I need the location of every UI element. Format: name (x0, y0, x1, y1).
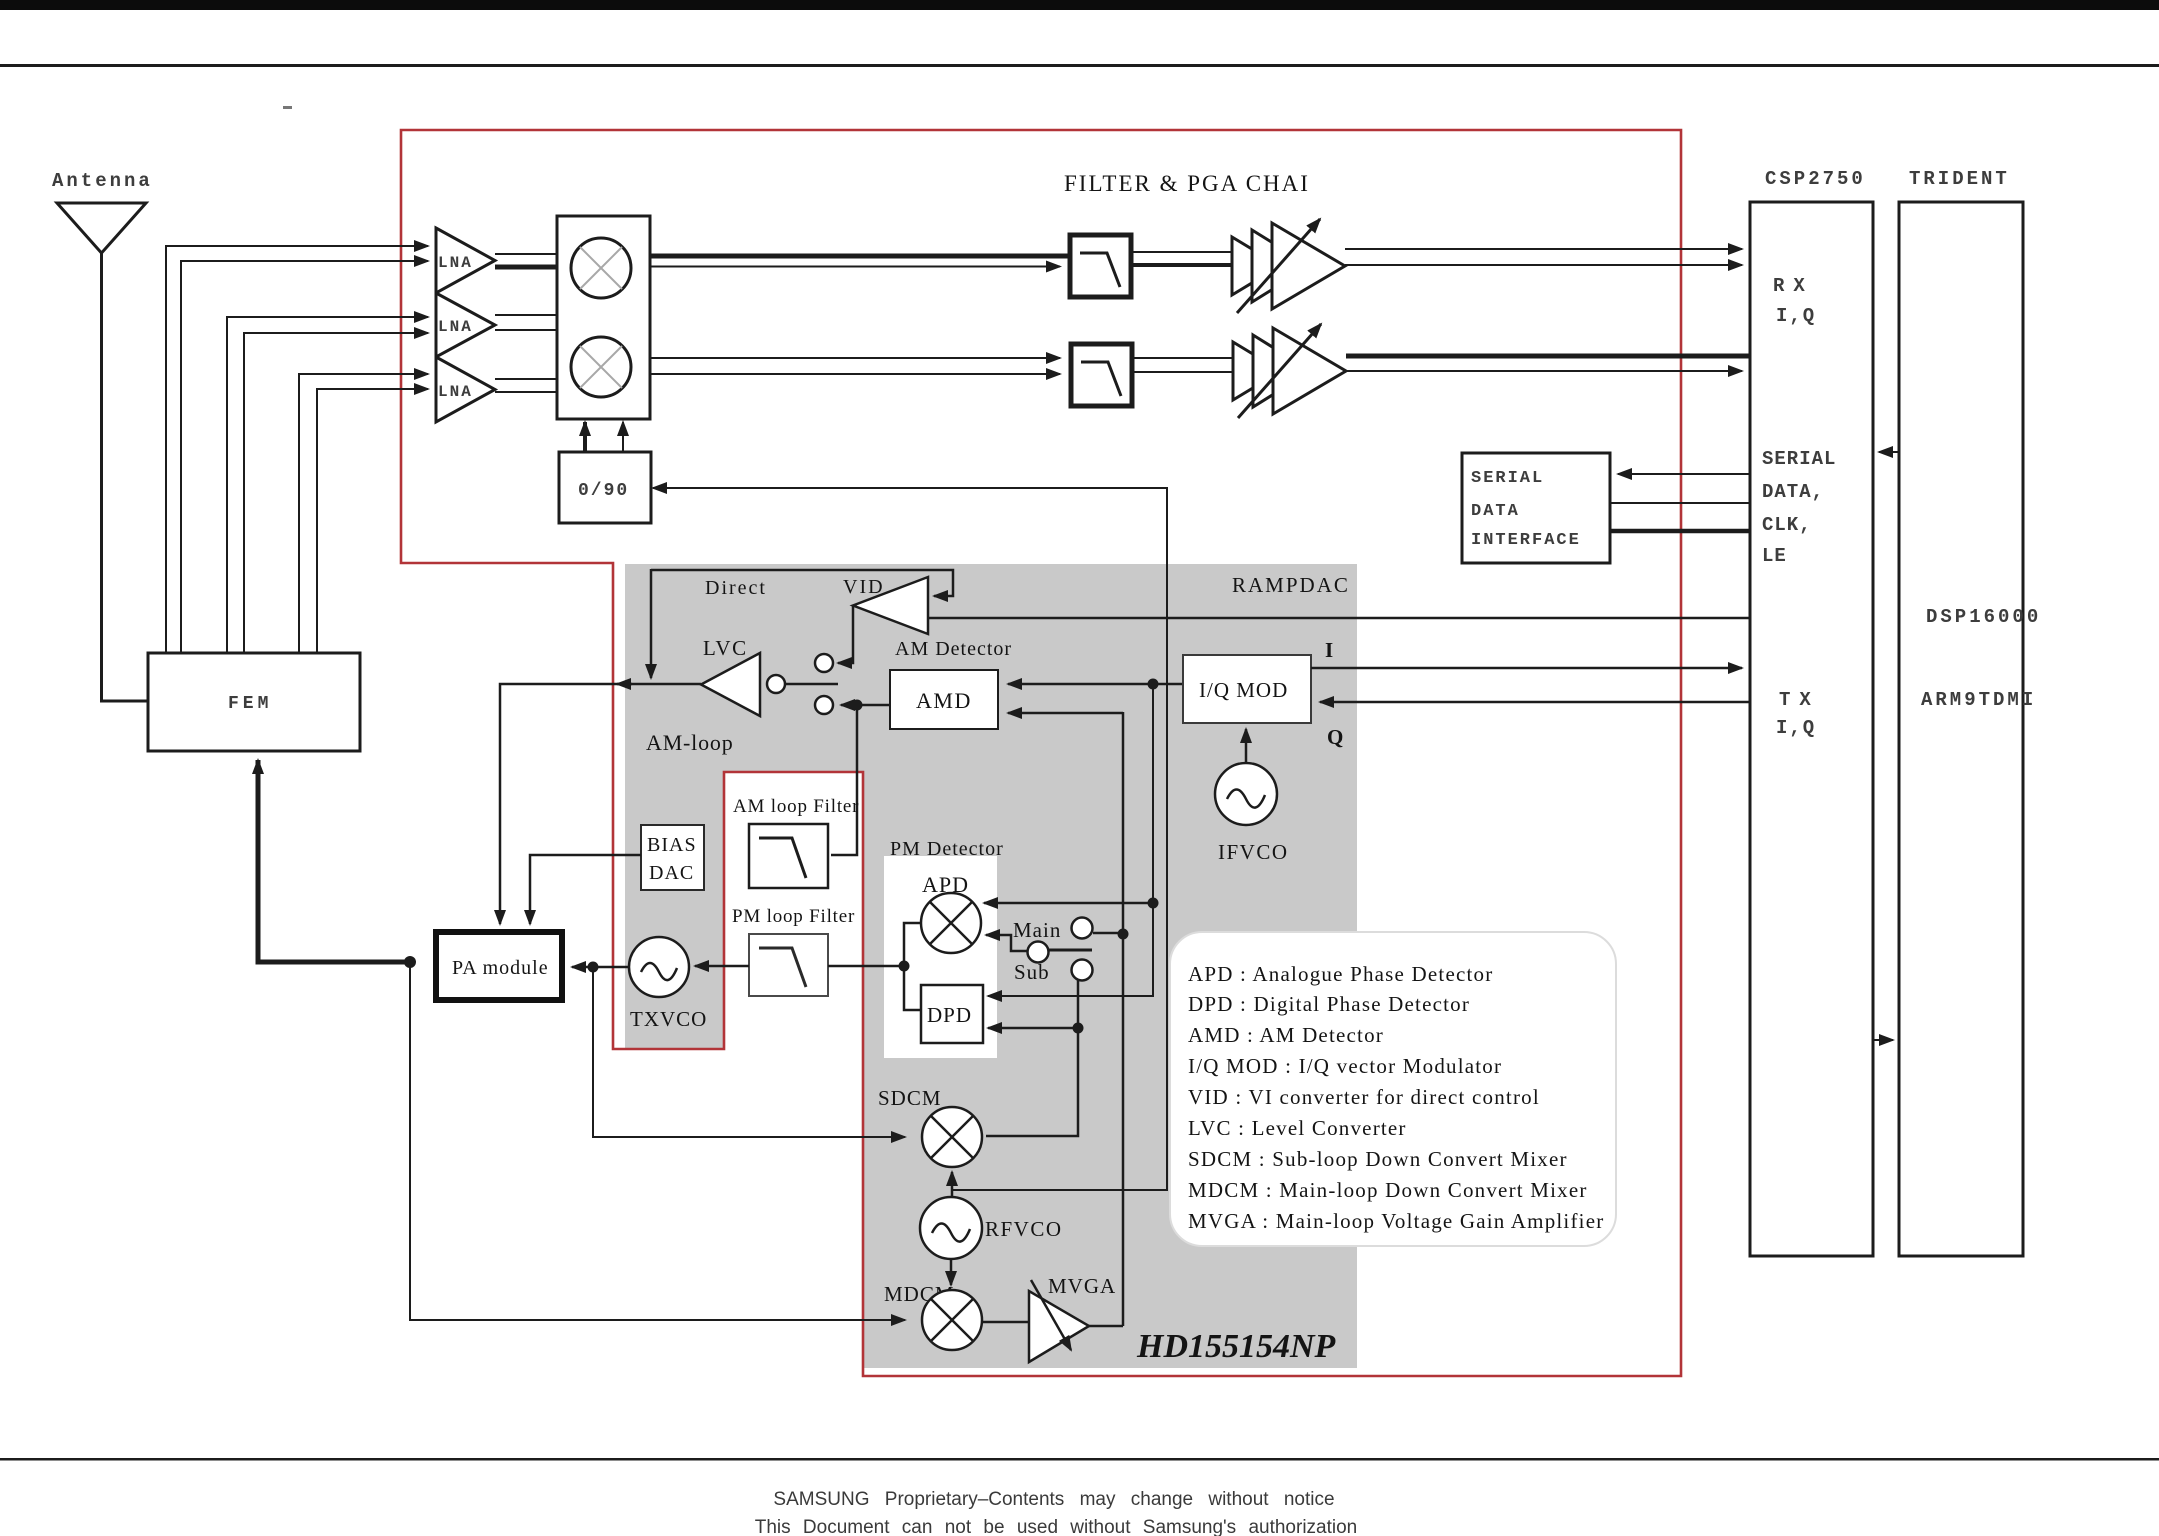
LO wires mixer to 0/90 (583, 422, 587, 452)
wire FEM to LNA2 in2 (244, 333, 428, 653)
switch lower contact (815, 696, 833, 714)
svg-text:AM loop Filter: AM loop Filter (733, 796, 859, 817)
node on AMD output (852, 700, 863, 711)
svg-text:I,Q: I,Q (1776, 305, 1816, 327)
legend text (1188, 962, 1604, 1233)
node PM detector output (899, 961, 910, 972)
wires LNA1 to mixer (495, 253, 557, 255)
svg-text:LVC: LVC (703, 636, 748, 660)
DPD box (921, 985, 983, 1043)
svg-text:This Document can not be used: This Document can not be used without Sa… (755, 1517, 1358, 1536)
wire FEM to LNA2 in1 (227, 317, 428, 653)
wire FEM to LNA1 in1 (166, 246, 428, 653)
tap down to SDCM (593, 967, 905, 1137)
svg-text:TRIDENT: TRIDENT (1909, 168, 2010, 190)
gray block: top band of HD155154NP (625, 564, 1357, 773)
TXVCO circle (629, 937, 689, 997)
svg-text:DATA,: DATA, (1762, 481, 1824, 503)
IFVCO feed wire (1245, 729, 1248, 763)
MVGA gain slash (1031, 1280, 1071, 1350)
link CSP to TRIDENT lower (1873, 1039, 1893, 1041)
svg-text:LNA: LNA (438, 383, 473, 401)
svg-text:Direct: Direct (705, 577, 767, 599)
node PA output (404, 956, 416, 968)
white PM Detector panel (884, 856, 997, 1058)
TX Q wire (1320, 701, 1750, 704)
node on TXVCO output (588, 962, 599, 973)
bottom rule (0, 1458, 2159, 1461)
RX Q row: mixer to filter (650, 357, 1060, 359)
link CSP to TRIDENT upper (1879, 451, 1899, 453)
BIAS DAC box (641, 825, 704, 890)
tap down to DPD upper input (988, 903, 1153, 996)
wires LNA3 to mixer (495, 378, 557, 380)
DPD left connection (904, 966, 921, 1010)
gray block: right body of HD155154NP (864, 773, 1357, 1368)
wire TXVCO to PA module (572, 966, 629, 969)
svg-text:DAC: DAC (649, 862, 694, 884)
svg-text:Sub: Sub (1014, 960, 1050, 984)
node DPD lower tap (1073, 1023, 1084, 1034)
PA module box (436, 932, 562, 1000)
gray block: TXVCO / BIAS DAC column (625, 773, 724, 1049)
wire FEM to LNA3 in2 (317, 389, 428, 653)
serial bus wires (1618, 473, 1750, 475)
wire MDCM to MVGA (982, 1321, 1029, 1324)
small dash artifact (283, 106, 292, 109)
wire I/Q MOD output to AMD input (1008, 683, 1183, 686)
svg-text:DSP16000: DSP16000 (1926, 606, 2041, 628)
svg-text:AMD : AM Detector: AMD : AM Detector (1188, 1023, 1384, 1047)
svg-text:LNA: LNA (438, 318, 473, 336)
AM loop filter box (749, 824, 828, 888)
svg-text:Antenna: Antenna (52, 170, 153, 192)
legend panel (1170, 932, 1616, 1246)
svg-text:SDCM: SDCM (878, 1086, 942, 1110)
LVC level converter triangle (701, 653, 760, 716)
svg-text:MVGA : Main-loop Voltage Gain: MVGA : Main-loop Voltage Gain Amplifier (1188, 1209, 1604, 1233)
RAMPDAC wire CSP to VID (928, 617, 1750, 620)
LNA stack triangles (436, 228, 495, 293)
CSP2750 box (1750, 202, 1873, 1256)
RFVCO to SDCM wire (951, 1172, 954, 1198)
svg-text:I/Q MOD : I/Q vector Modulator: I/Q MOD : I/Q vector Modulator (1188, 1054, 1502, 1078)
BIAS DAC wire to PA module (530, 855, 641, 924)
RFVCO circle (920, 1197, 982, 1259)
TRIDENT box (1899, 202, 2023, 1256)
svg-text:AM Detector: AM Detector (895, 638, 1012, 660)
wire FEM to LNA3 in1 (299, 374, 428, 653)
wire PM filter to TXVCO (695, 965, 749, 968)
LVC input circle (767, 675, 785, 693)
svg-text:LE: LE (1762, 545, 1787, 567)
MDCM mixer circle (922, 1290, 982, 1350)
PGA amplifier I (triple triangle with gain arrow) (1232, 223, 1345, 309)
svg-text:Q: Q (1327, 725, 1343, 749)
svg-text:VID : VI converter for direct: VID : VI converter for direct control (1188, 1085, 1540, 1109)
reference tap down to APD (1152, 684, 1154, 903)
MVGA amplifier triangle (1029, 1291, 1089, 1362)
wire Sub contact down to SDCM output (986, 979, 1078, 1136)
APD left connection (904, 923, 921, 966)
node on AMD reference wire (1148, 679, 1159, 690)
LPF box Q (1071, 344, 1132, 406)
RX I row: mixer to filter (650, 254, 1070, 259)
PGA amplifier Q (1233, 328, 1346, 414)
svg-text:0/90: 0/90 (578, 481, 629, 501)
wires LNA2 to mixer (495, 314, 557, 316)
svg-text:IFVCO: IFVCO (1218, 840, 1289, 864)
wire APD/DPD output to PM filter (828, 965, 904, 968)
SERIAL DATA INTERFACE box (1462, 453, 1610, 563)
svg-text:SDCM : Sub-loop Down Convert M: SDCM : Sub-loop Down Convert Mixer (1188, 1147, 1568, 1171)
Direct control wire (651, 570, 953, 596)
antenna symbol (57, 203, 146, 253)
svg-text:DPD: DPD (927, 1003, 972, 1027)
VID V-I converter triangle (853, 577, 928, 634)
top black bar (0, 0, 2159, 10)
svg-text:FILTER & PGA CHAI: FILTER & PGA CHAI (1064, 171, 1310, 196)
wire to APD upper input (984, 902, 1153, 905)
filter to PGA wires Q (1132, 357, 1233, 359)
svg-text:LVC : Level Converter: LVC : Level Converter (1188, 1116, 1407, 1140)
TX I wire (1311, 667, 1742, 670)
red outline of chip boundary (401, 130, 1681, 1376)
PM loop filter box (749, 934, 828, 996)
node Main tap (1118, 929, 1129, 940)
0/90 phase splitter box (559, 452, 651, 523)
svg-text:CLK,: CLK, (1762, 514, 1812, 536)
svg-text:RFVCO: RFVCO (985, 1217, 1063, 1241)
svg-text:PM loop Filter: PM loop Filter (732, 906, 855, 927)
svg-text:LNA: LNA (438, 254, 473, 272)
LO feed wire from RFVCO divider to 0/90 (653, 487, 1167, 489)
AMD box (890, 670, 998, 729)
tap down to MDCM (410, 962, 905, 1320)
svg-text:TX: TX (1779, 689, 1820, 711)
switch upper contact (815, 654, 833, 672)
svg-text:MVGA: MVGA (1048, 1274, 1116, 1298)
svg-text:I/Q MOD: I/Q MOD (1199, 678, 1288, 702)
IFVCO circle (1215, 763, 1277, 825)
svg-text:RAMPDAC: RAMPDAC (1232, 573, 1350, 597)
AMD output wire to switch lower contact (841, 704, 890, 707)
svg-text:I: I (1325, 638, 1333, 662)
svg-text:HD155154NP: HD155154NP (1136, 1328, 1336, 1365)
svg-text:INTERFACE: INTERFACE (1471, 531, 1581, 550)
wire pole to APD lower input (986, 935, 1027, 951)
svg-text:PM Detector: PM Detector (890, 838, 1004, 860)
wire LVC circle to switch pole (785, 683, 838, 686)
LPF box I (1070, 235, 1131, 297)
arrowhead on AM loop wire at chip edge (617, 683, 632, 686)
svg-text:FEM: FEM (228, 694, 272, 714)
AM loop wire: LVC output to PA control (500, 684, 701, 924)
wire MVGA column to AMD lower input (1008, 712, 1123, 715)
PGA to CSP wires Q (1346, 354, 1750, 359)
top rule (0, 64, 2159, 67)
switch pole circle (1028, 942, 1049, 963)
svg-text:SERIAL: SERIAL (1762, 448, 1836, 470)
svg-text:BIAS: BIAS (647, 834, 697, 856)
thick TX wire PA module to FEM (256, 760, 261, 962)
I/Q MOD box (1183, 655, 1311, 723)
svg-text:SAMSUNG Proprietary–Contents m: SAMSUNG Proprietary–Contents may change … (773, 1489, 1334, 1510)
PGA to CSP wires I (1345, 248, 1742, 250)
svg-text:DATA: DATA (1471, 502, 1520, 521)
svg-text:AM-loop: AM-loop (646, 730, 734, 755)
svg-text:PA module: PA module (452, 957, 549, 979)
Main contact circle (1072, 918, 1093, 939)
wire FEM to LNA1 in2 (181, 261, 428, 653)
wire node down to AM loop filter (831, 705, 857, 855)
node at APD reference (1148, 898, 1159, 909)
svg-text:ARM9TDMI: ARM9TDMI (1921, 689, 2036, 711)
SDCM mixer circle (922, 1107, 982, 1167)
mixer circle Q (571, 337, 631, 397)
FEM box (148, 653, 360, 751)
svg-text:SERIAL: SERIAL (1471, 469, 1544, 488)
RX quadrature mixer box (557, 216, 650, 419)
filter to PGA wires I (1131, 251, 1232, 253)
svg-text:RX: RX (1773, 275, 1814, 297)
svg-text:TXVCO: TXVCO (630, 1007, 707, 1031)
svg-text:MDCM : Main-loop Down Convert: MDCM : Main-loop Down Convert Mixer (1188, 1178, 1588, 1202)
svg-text:APD : Analogue Phase Detector: APD : Analogue Phase Detector (1188, 962, 1493, 986)
antenna wire (102, 253, 149, 701)
mixer circle I (571, 238, 631, 298)
svg-text:DPD : Digital Phase Detector: DPD : Digital Phase Detector (1188, 992, 1470, 1016)
wire Main contact to MVGA column (1093, 932, 1123, 935)
switch arm stub (1049, 949, 1092, 952)
wire MVGA output up main loop (1089, 1325, 1123, 1328)
Sub contact circle (1072, 960, 1093, 981)
svg-text:I,Q: I,Q (1776, 717, 1816, 739)
svg-text:AMD: AMD (916, 688, 972, 713)
svg-text:Main: Main (1013, 918, 1061, 942)
APD mixer circle (921, 893, 981, 953)
VID output to switch upper contact (838, 605, 853, 663)
RFVCO to MDCM wire (950, 1259, 953, 1285)
wire to DPD lower input (988, 1027, 1078, 1030)
svg-text:CSP2750: CSP2750 (1765, 168, 1866, 190)
